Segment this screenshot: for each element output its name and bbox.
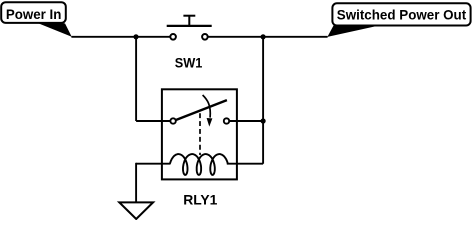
svg-text:Power In: Power In: [6, 6, 62, 22]
port flag "Switched Power Out": [327, 3, 470, 37]
ground symbol: [119, 202, 153, 219]
relay coil: [170, 154, 228, 175]
wire: Power In tail to SW1 left terminal: [71, 36, 169, 38]
relay contact arm: [176, 100, 227, 120]
box of Switched Power Out flag: [332, 3, 470, 25]
relay contact right circle: [224, 118, 229, 123]
tail of Switched Power Out flag: [327, 25, 383, 37]
wire: down to ground: [135, 163, 137, 202]
relay body box: [162, 89, 237, 179]
wire: right vertical from top junction to coil level: [262, 37, 264, 164]
SW1 right terminal circle: [202, 34, 208, 40]
wire: left stub into relay contact: [136, 120, 170, 122]
actuation arrow head: [207, 118, 213, 127]
svg-text:Switched Power Out: Switched Power Out: [337, 7, 467, 23]
tail of Power In flag: [39, 23, 72, 36]
svg-text:SW1: SW1: [175, 55, 203, 71]
wire: relay contact right stub: [230, 120, 263, 122]
wire: SW1 right terminal to Switched Power Out tail: [208, 36, 327, 38]
linkage dashed line: [199, 113, 201, 155]
wire: coil left lead out of box: [136, 163, 170, 165]
junction node at relay common: [261, 118, 266, 123]
port flag "Power In": [1, 2, 72, 37]
relay contact left circle: [170, 118, 175, 123]
wire: left vertical from junction down to relay contact: [135, 37, 137, 121]
actuation arrow arc: [203, 95, 211, 118]
box of Power In flag: [1, 2, 66, 23]
junction node at top-left: [133, 34, 138, 39]
relay RLY1: [162, 89, 237, 207]
junction node at top-right: [261, 34, 266, 39]
SW1 plunger cap: [183, 15, 195, 17]
svg-text:RLY1: RLY1: [183, 191, 217, 207]
SW1 left terminal circle: [170, 34, 176, 40]
pushbutton SW1: [167, 16, 212, 71]
wire: coil right lead to right vertical: [227, 163, 263, 165]
SW1 actuator bar: [167, 25, 212, 27]
SW1 plunger stem: [188, 16, 190, 26]
